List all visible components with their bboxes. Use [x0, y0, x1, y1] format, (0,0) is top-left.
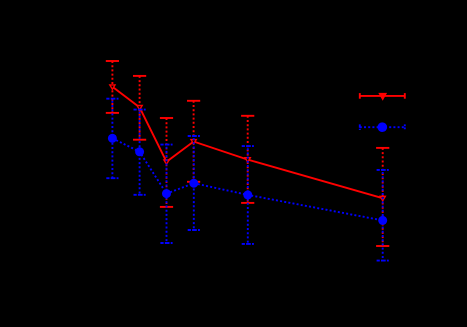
red error bar cap bottom 2 — [133, 139, 146, 141]
blue error bar cap bottom 3 — [160, 242, 172, 244]
blue error bar cap bottom 1 — [106, 177, 118, 179]
blue marker 3 (filled circle) — [162, 189, 171, 198]
blue marker 4 (filled circle) — [189, 179, 198, 188]
legend red entry left cap — [359, 93, 361, 99]
red data line — [112, 87, 382, 198]
blue marker 6 (filled circle) — [378, 216, 387, 225]
legend blue entry left cap — [359, 124, 361, 130]
red marker 6 (open triangle-down) — [380, 196, 385, 200]
red error bar cap top 5 — [241, 115, 254, 117]
blue error bar vertical 3 — [166, 145, 168, 243]
legend red marker (filled triangle-down) — [378, 93, 387, 101]
legend blue entry line (dotted) — [360, 126, 405, 128]
red error bar vertical 4 — [193, 101, 195, 182]
red error bar vertical 5 — [247, 116, 249, 203]
legend blue entry right cap — [404, 124, 406, 130]
red error bar cap top 4 — [187, 100, 200, 102]
red error bar cap top 6 — [376, 147, 389, 149]
legend red entry line — [360, 95, 405, 97]
red error bar cap top 3 — [160, 117, 173, 119]
blue error bar cap top 2 — [134, 109, 146, 111]
blue error bar cap top 1 — [106, 98, 118, 100]
blue marker 1 (filled circle) — [108, 134, 117, 143]
legend blue marker (filled circle) — [378, 122, 388, 132]
blue marker 2 (filled circle) — [135, 147, 144, 156]
blue error bar vertical 2 — [139, 110, 141, 195]
blue error bar vertical 1 — [111, 99, 113, 179]
red error bar vertical 1 — [111, 61, 113, 113]
red error bar cap bottom 6 — [376, 245, 389, 247]
red error bar vertical 2 — [139, 76, 141, 140]
blue error bar cap top 5 — [242, 145, 254, 147]
red marker 4 (open triangle-down) — [191, 140, 196, 144]
red marker 3 (open triangle-down) — [164, 160, 169, 164]
red error bar vertical 6 — [382, 148, 384, 246]
red error bar cap top 2 — [133, 75, 146, 77]
red marker 2 (open triangle-down) — [137, 106, 142, 110]
blue error bar vertical 6 — [382, 170, 384, 261]
red error bar cap bottom 1 — [106, 112, 119, 114]
blue data line (dotted) — [112, 138, 382, 220]
blue error bar vertical 5 — [247, 146, 249, 244]
red error bar vertical 3 — [166, 118, 168, 207]
red error bar cap bottom 5 — [241, 202, 254, 204]
red error bar cap bottom 4 — [187, 181, 200, 183]
blue error bar cap bottom 6 — [377, 260, 389, 262]
blue error bar vertical 4 — [193, 136, 195, 230]
blue error bar cap bottom 4 — [188, 229, 200, 231]
red marker 5 (open triangle-down) — [245, 158, 250, 162]
blue error bar cap top 4 — [188, 135, 200, 137]
red marker 1 (open triangle-down) — [110, 85, 115, 89]
legend red entry right cap — [404, 93, 406, 99]
red error bar cap top 1 — [106, 60, 119, 62]
blue error bar cap bottom 5 — [242, 243, 254, 245]
blue error bar cap bottom 2 — [134, 194, 146, 196]
blue marker 5 (filled circle) — [243, 190, 252, 199]
blue error bar cap top 3 — [160, 144, 172, 146]
red error bar cap bottom 3 — [160, 206, 173, 208]
blue error bar cap top 6 — [377, 169, 389, 171]
